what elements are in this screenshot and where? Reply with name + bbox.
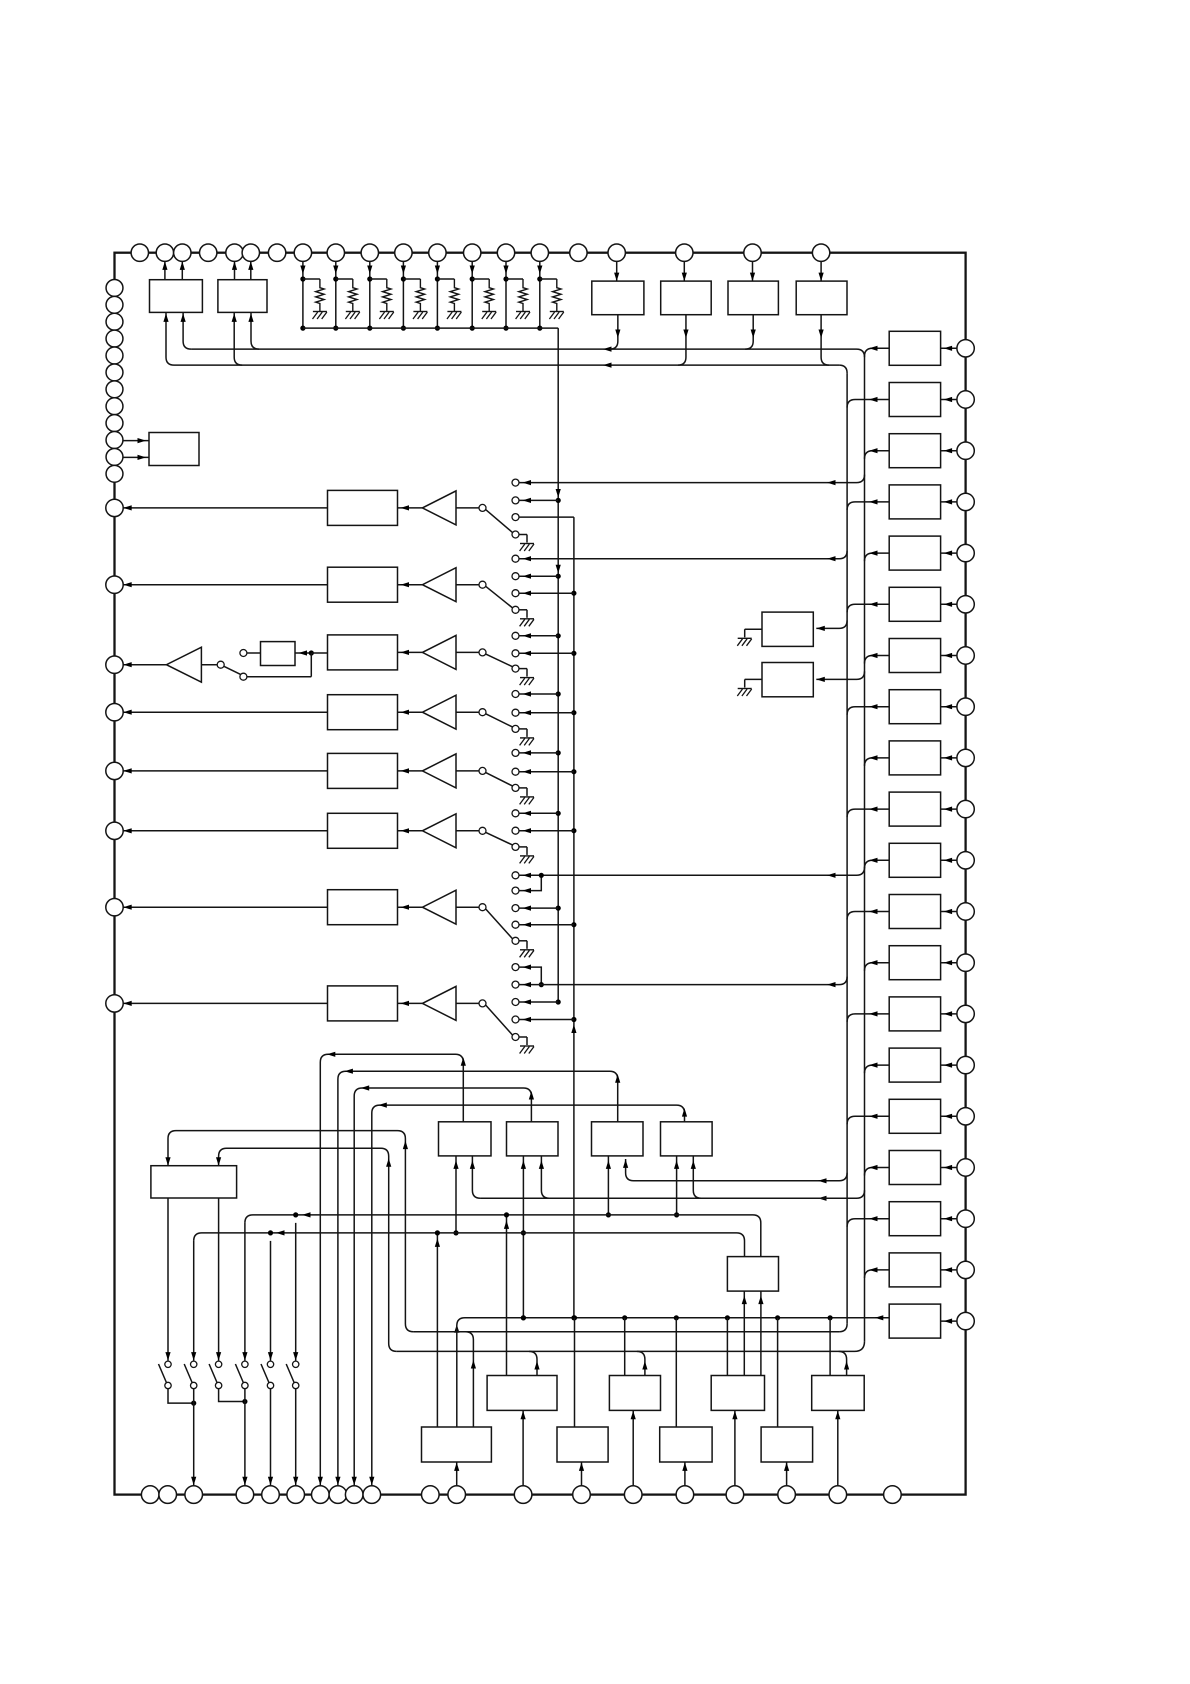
bottom pin pad 12 bbox=[448, 1486, 466, 1504]
junction on clock bus bbox=[622, 1315, 627, 1320]
wire right pad to R14 bbox=[941, 1013, 957, 1015]
wire A5 output to left pad bbox=[123, 770, 327, 772]
bottom pin pad 3 bbox=[185, 1486, 203, 1504]
resistor R2 bbox=[349, 279, 357, 312]
wire right pad to R13 bbox=[941, 962, 957, 964]
wire clock bus to B4 top bbox=[829, 1318, 831, 1376]
wire right pad to R15 bbox=[941, 1064, 957, 1066]
wire top pad to T3 bbox=[752, 261, 754, 281]
ground at SW6 bbox=[519, 846, 527, 848]
switch SW6 lever bbox=[486, 832, 513, 845]
wire SW6 contact2 to V2 bbox=[519, 830, 574, 832]
switch SWB6 lower contact bbox=[293, 1382, 299, 1388]
wire U4 input from node N3 bbox=[295, 652, 311, 654]
wire SW2 contact1 long from bus A bbox=[519, 551, 847, 559]
wire M1 right-bottom pin to wire1198 bbox=[472, 1156, 480, 1198]
switch SW4 throw contact 1 bbox=[512, 691, 519, 698]
switch SW0 throw contact upper bbox=[240, 650, 247, 657]
switch SW7 throw contact 4 bbox=[512, 921, 519, 928]
junction SW8 bracket bbox=[539, 982, 544, 987]
right pin pad 19 bbox=[957, 1261, 974, 1278]
switch SW3 throw contact 1 bbox=[512, 632, 519, 639]
wire T1 output down bbox=[610, 315, 618, 349]
switch SWB4 lower contact bbox=[242, 1382, 248, 1388]
wire right pad to R5 bbox=[941, 552, 957, 554]
switch SW2 throw contact 3 bbox=[512, 590, 519, 597]
right pin pad 15 bbox=[957, 1056, 974, 1073]
top pin pad 15 bbox=[531, 244, 548, 261]
wire A4 output to left pad bbox=[123, 711, 327, 713]
junction B1 riser on W_A bbox=[504, 1212, 509, 1217]
left pin pad OUT6 bbox=[106, 822, 123, 839]
wire W_B select bus bbox=[194, 1233, 745, 1257]
block R11 right column cell bbox=[889, 843, 940, 877]
left pin pad OUT5 bbox=[106, 762, 123, 779]
top pin pad 14 bbox=[497, 244, 514, 261]
resistor cell R4 feed wire bbox=[402, 261, 404, 328]
switch SWB5 lever bbox=[261, 1364, 269, 1383]
left pin pad stack 5 bbox=[106, 347, 123, 364]
junction on V2 bbox=[571, 922, 576, 927]
ground under R3 bbox=[380, 311, 394, 313]
left pin pad stack 6 bbox=[106, 364, 123, 381]
right pin pad 16 bbox=[957, 1108, 974, 1125]
block R12 right column cell bbox=[889, 895, 940, 929]
wire SWB2 to bottom pad bbox=[193, 1389, 195, 1486]
bottom pin pad 10 bbox=[363, 1486, 381, 1504]
wire SW5 contact1 to V1 bbox=[519, 752, 558, 754]
ground under R2 bbox=[346, 311, 360, 313]
ground at SW5 bbox=[519, 787, 527, 789]
wire right pad to R12 bbox=[941, 911, 957, 913]
junction on clock bus bbox=[674, 1315, 679, 1320]
wire B0 input bbox=[201, 664, 217, 666]
junction on V2 bbox=[571, 1017, 576, 1022]
ground at SW7 bbox=[519, 940, 527, 942]
wire right pad to R7 bbox=[941, 655, 957, 657]
block R8 right column cell bbox=[889, 690, 940, 724]
wire clock bus to C2 top bbox=[574, 1318, 576, 1427]
switch SW1 lever bbox=[486, 509, 513, 532]
block L1 left decoder bbox=[151, 1166, 237, 1198]
wire SW3 contact2 to V2 bbox=[519, 652, 574, 654]
junction R3 on bus bbox=[367, 326, 372, 331]
wire amp B3 input bbox=[456, 651, 479, 653]
wire top pad to T1 bbox=[616, 261, 618, 281]
switch SW0 lever bbox=[224, 666, 241, 674]
switch SWB2 lever bbox=[184, 1364, 192, 1383]
junction on clock bus bbox=[828, 1315, 833, 1320]
wire top pad to T2 bbox=[683, 261, 685, 281]
left pin pad OUT7 bbox=[106, 899, 123, 916]
wire U2 input pin from bus W1 bbox=[251, 313, 259, 349]
block M1 mid register bbox=[439, 1122, 492, 1156]
bottom pin pad 1 bbox=[141, 1486, 159, 1504]
block R4 right column cell bbox=[889, 485, 940, 519]
left pin pad stack 1 bbox=[106, 279, 123, 296]
top pin pad 9 bbox=[327, 244, 344, 261]
wire bus A bottom into W_b bbox=[839, 1324, 847, 1332]
wire resistor bus corner down to V1 bbox=[557, 328, 559, 1002]
wire R7 output to bus bbox=[865, 656, 890, 664]
wire T3 output down bbox=[745, 315, 753, 349]
top pin pad 16 bbox=[570, 244, 587, 261]
switch SW8 throw contact 2 bbox=[512, 981, 519, 988]
wire M2 top output loop to bottom pad bbox=[354, 1088, 531, 1485]
block B3 output DAC upper bbox=[711, 1376, 764, 1411]
top pin pad 5 bbox=[226, 244, 243, 261]
bottom pin pad 4 bbox=[236, 1486, 254, 1504]
bus A vertical bbox=[846, 373, 848, 1324]
wire loop from W_c riser to L1 input b bbox=[219, 1148, 397, 1351]
junction on V1 bbox=[556, 691, 561, 696]
switch SW7 pole contact bbox=[479, 904, 486, 911]
wire M2 left-bottom pin down to clock bus bbox=[522, 1156, 524, 1318]
wire SW7 contact2 bracket to contact1 wire bbox=[519, 875, 541, 890]
switch SWB1 upper contact bbox=[165, 1361, 171, 1367]
resistor cell R5 feed wire bbox=[436, 261, 438, 328]
ground at SW3 bbox=[519, 668, 527, 670]
switch SW1 throw contact 3 bbox=[512, 514, 519, 521]
block A4 amp-row filter bbox=[328, 695, 398, 730]
wire SW8 contact2 long from bus A bbox=[519, 977, 847, 985]
switch SWB3 lower contact bbox=[215, 1382, 221, 1388]
wire R1 output to bus bbox=[865, 348, 890, 356]
right pin pad 3 bbox=[957, 442, 974, 459]
switch SW7 throw contact 1 bbox=[512, 872, 519, 879]
top pin pad 10 bbox=[361, 244, 378, 261]
block B2 output DAC upper bbox=[609, 1376, 660, 1411]
block A2 amp-row filter bbox=[328, 567, 398, 602]
junction SWB3/SWB4 bbox=[242, 1399, 247, 1404]
wire M4 top output loop to bottom pad bbox=[372, 1105, 685, 1485]
block M2 mid register bbox=[507, 1122, 559, 1156]
right pin pad 18 bbox=[957, 1210, 974, 1227]
switch SWB6 lever bbox=[286, 1364, 294, 1383]
left pin pad stack 12 bbox=[106, 465, 123, 482]
switch SW8 throw contact 4 bbox=[512, 1016, 519, 1023]
wire bus W1 horizontal bbox=[191, 348, 856, 350]
wire R15 output to bus bbox=[865, 1065, 890, 1073]
wire L1 output to SWB3 bbox=[218, 1198, 220, 1361]
left pin pad stack 7 bbox=[106, 381, 123, 398]
junction on V2 bbox=[571, 769, 576, 774]
right pin pad 4 bbox=[957, 493, 974, 510]
wire T2 output down bbox=[678, 315, 686, 365]
op-amp buffer B7 bbox=[398, 906, 423, 908]
wire bottom pad to DAC block bbox=[581, 1462, 583, 1486]
block R13 right column cell bbox=[889, 946, 940, 980]
block U1 top-left latch bbox=[150, 280, 203, 313]
ground at SW2 bbox=[519, 609, 527, 611]
switch SW4 lever bbox=[486, 714, 513, 727]
wire right pad to R2 bbox=[941, 399, 957, 401]
wire bus W1 end curves into bus B bbox=[857, 349, 865, 357]
switch SW8 pole contact bbox=[479, 1000, 486, 1007]
wire right pad to R19 bbox=[941, 1269, 957, 1271]
wire R11 output to bus bbox=[865, 860, 890, 868]
wire U1 input pin from bus W2 bbox=[166, 313, 174, 365]
switch SW2 pole contact bbox=[479, 581, 486, 588]
junction R6 on bus bbox=[470, 326, 475, 331]
wire C1 riser to W_B bbox=[436, 1233, 438, 1427]
wire M4 right-bottom pin to wire1180 bbox=[693, 1156, 701, 1198]
op-amp buffer B0 (row3 output driver) bbox=[123, 664, 166, 666]
ground at SW8 bbox=[519, 1036, 527, 1038]
top pin pad 20 bbox=[812, 244, 829, 261]
right pin pad 20 bbox=[957, 1312, 974, 1329]
wire S1 bottom pin a to B3 bbox=[743, 1291, 745, 1375]
top pin pad 18 bbox=[676, 244, 693, 261]
bottom pin pad 14 bbox=[573, 1486, 591, 1504]
switch SW3 throw contact 2 bbox=[512, 650, 519, 657]
block R6 right column cell bbox=[889, 587, 940, 621]
wire right pad to R8 bbox=[941, 706, 957, 708]
junction on V2 bbox=[571, 591, 576, 596]
ground under R7 bbox=[516, 311, 530, 313]
wire bus A branch to mid wire 1180 bbox=[626, 1159, 848, 1181]
ground at G2 bbox=[745, 678, 762, 680]
node R5 branch bbox=[437, 278, 454, 280]
ground under R8 bbox=[550, 311, 564, 313]
bottom pin pad 7 bbox=[312, 1486, 330, 1504]
wire B-row riser into W_c bbox=[637, 1351, 645, 1375]
ground under R4 bbox=[413, 311, 427, 313]
wire right pad to R18 bbox=[941, 1218, 957, 1220]
wire clock bus to B2 top bbox=[624, 1318, 626, 1376]
wire R17 output to bus bbox=[865, 1168, 890, 1176]
block R17 right column cell bbox=[889, 1151, 940, 1185]
wire pad to U3 input a bbox=[123, 440, 149, 442]
left pin pad stack 2 bbox=[106, 296, 123, 313]
wire 1198 connects M pins to bus B bbox=[480, 1197, 856, 1199]
junction R1 on bus bbox=[300, 326, 305, 331]
block C1 output DAC lower bbox=[422, 1427, 492, 1462]
switch SW2 throw contact 1 bbox=[512, 555, 519, 562]
wire amp B2 input bbox=[456, 584, 479, 586]
switch SW5 throw contact 2 bbox=[512, 768, 519, 775]
wire bottom pad to DAC block bbox=[786, 1462, 788, 1486]
wire SW8 contact4 to V2 bbox=[519, 1019, 574, 1021]
wire SW7 contact4 to V2 bbox=[519, 924, 574, 926]
wire bottom pad to DAC block bbox=[522, 1410, 524, 1485]
wire bottom pad to DAC block bbox=[632, 1410, 634, 1485]
wire bottom pad to DAC block bbox=[734, 1410, 736, 1485]
node R6 branch bbox=[472, 278, 489, 280]
block T1 top input stage bbox=[592, 281, 644, 315]
left pin pad stack 3 bbox=[106, 313, 123, 330]
bottom pin pad 20 bbox=[884, 1486, 902, 1504]
wire bus B bottom into W_c bbox=[855, 1341, 865, 1351]
bottom pin pad 8 bbox=[329, 1486, 347, 1504]
switch SW5 pole contact bbox=[479, 767, 486, 774]
wire W_A select bus bbox=[245, 1215, 761, 1257]
op-amp buffer B8 bbox=[398, 1002, 423, 1004]
wire right pad to R17 bbox=[941, 1167, 957, 1169]
right pin pad 11 bbox=[957, 852, 974, 869]
wire amp B1 input bbox=[456, 507, 479, 509]
wire SW5 contact2 to V2 bbox=[519, 771, 574, 773]
right pin pad 5 bbox=[957, 544, 974, 561]
wire R14 output to bus bbox=[847, 1014, 889, 1022]
left pin pad OUT2 bbox=[106, 576, 123, 593]
resistor R5 bbox=[450, 279, 458, 312]
bottom pin pad 5 bbox=[262, 1486, 280, 1504]
resistor cell R7 feed wire bbox=[505, 261, 507, 328]
wire SWB6 to bottom pad bbox=[295, 1389, 297, 1486]
wire R5 output to bus bbox=[865, 553, 890, 561]
left pin pad OUT4 bbox=[106, 704, 123, 721]
wire bottom pad to DAC block bbox=[837, 1410, 839, 1485]
node R2 branch bbox=[336, 278, 353, 280]
left pin pad stack 4 bbox=[106, 330, 123, 347]
wire L1 output to SWB1 bbox=[167, 1198, 169, 1361]
wire SW3 contact1 to V1 bbox=[519, 635, 558, 637]
switch SW2 throw contact 2 bbox=[512, 573, 519, 580]
left pin pad OUT8 bbox=[106, 995, 123, 1012]
junction W_B to sw5 bbox=[268, 1230, 273, 1235]
op-amp buffer B3 bbox=[398, 651, 423, 653]
wire clock bus to B3 top bbox=[726, 1318, 728, 1376]
switch SW5 lever bbox=[486, 772, 513, 786]
switch SWB5 upper contact bbox=[267, 1361, 273, 1367]
switch SWB1 lever bbox=[159, 1364, 167, 1383]
right pin pad 17 bbox=[957, 1159, 974, 1176]
resistor cell R6 feed wire bbox=[471, 261, 473, 328]
chip outline border bbox=[115, 253, 966, 1495]
junction SW7 bracket bbox=[539, 873, 544, 878]
junction C1 riser on W_B bbox=[435, 1230, 440, 1235]
wire U1 pin to top pad bbox=[164, 261, 166, 279]
wire right pad to R4 bbox=[941, 501, 957, 503]
block R19 right column cell bbox=[889, 1253, 940, 1287]
block R18 right column cell bbox=[889, 1202, 940, 1236]
node R3 branch bbox=[370, 278, 387, 280]
block A7 amp-row filter bbox=[328, 890, 398, 925]
block A3 amp-row filter bbox=[328, 635, 398, 670]
vertical V2 bbox=[573, 517, 575, 1318]
wire U1 input pin from bus W1 bbox=[183, 313, 191, 349]
top pin pad 6 bbox=[242, 244, 259, 261]
top pin pad 2 bbox=[156, 244, 173, 261]
junction M4 pin on W_A bbox=[674, 1212, 679, 1217]
switch SW1 lever-end contact bbox=[512, 531, 519, 538]
block U3 small left block bbox=[149, 433, 199, 466]
junction on V2 bbox=[571, 651, 576, 656]
ground at SW4 bbox=[519, 728, 527, 730]
wire M2 right-bottom pin to wire1198 bbox=[541, 1156, 549, 1198]
right pin pad 10 bbox=[957, 800, 974, 817]
bottom pin pad 19 bbox=[829, 1486, 847, 1504]
wire clock bus to C3 top bbox=[675, 1318, 677, 1427]
wire W_c bus bbox=[397, 1350, 855, 1352]
wire amp B6 input bbox=[456, 830, 479, 832]
op-amp buffer B1 bbox=[398, 507, 423, 509]
top pin pad 4 bbox=[200, 244, 217, 261]
wire bottom pad to DAC block bbox=[684, 1462, 686, 1486]
top pin pad 11 bbox=[395, 244, 412, 261]
wire A8 output to left pad bbox=[123, 1002, 327, 1004]
wire W_B to SWB5 bbox=[270, 1241, 272, 1361]
block R14 right column cell bbox=[889, 997, 940, 1031]
resistor cell R1 feed wire bbox=[302, 261, 304, 328]
switch SW5 lever-end contact bbox=[512, 784, 519, 791]
junction on clock bus bbox=[725, 1315, 730, 1320]
wire B1 riser to W_A bbox=[506, 1215, 508, 1376]
bottom pin pad 11 bbox=[422, 1486, 440, 1504]
block U4 row3 processor bbox=[261, 642, 296, 666]
wire right pad to R1 bbox=[941, 347, 957, 349]
junction on clock bus bbox=[572, 1315, 577, 1320]
wire SWB1 to SWB2 column bbox=[168, 1389, 194, 1403]
bottom pin pad 18 bbox=[778, 1486, 796, 1504]
wire SW6 contact1 to V1 bbox=[519, 812, 558, 814]
wire SW7 contact3 to V1 bbox=[519, 907, 558, 909]
wire R19 output to bus bbox=[865, 1270, 890, 1278]
bottom pin pad 17 bbox=[726, 1486, 744, 1504]
junction M2 pin on W_B bbox=[521, 1230, 526, 1235]
block R3 right column cell bbox=[889, 434, 940, 468]
switch SW6 lever-end contact bbox=[512, 843, 519, 850]
junction SWB1/SWB2 bbox=[191, 1401, 196, 1406]
top pin pad 1 bbox=[131, 244, 148, 261]
switch SW3 pole contact bbox=[479, 649, 486, 656]
resistor R6 bbox=[485, 279, 493, 312]
wire SW2 contact2 to V1 bbox=[519, 575, 558, 577]
switch SW4 throw contact 2 bbox=[512, 709, 519, 716]
op-amp buffer B5 bbox=[398, 770, 423, 772]
bottom pin pad 16 bbox=[676, 1486, 694, 1504]
right pin pad 7 bbox=[957, 647, 974, 664]
resistor R3 bbox=[383, 279, 391, 312]
block T4 top input stage bbox=[796, 281, 847, 315]
bus B vertical bbox=[864, 356, 866, 1341]
top pin pad 17 bbox=[608, 244, 625, 261]
junction on V2 bbox=[571, 828, 576, 833]
block G2 reference bbox=[762, 663, 813, 697]
node R8 branch bbox=[540, 278, 557, 280]
block R20 right column cell bbox=[889, 1304, 940, 1338]
bottom pin pad 2 bbox=[159, 1486, 177, 1504]
wire U2 pin to top pad bbox=[234, 261, 236, 279]
wire node N3 to lower contact bbox=[310, 653, 312, 677]
left pin pad OUT3 bbox=[106, 656, 123, 673]
wire R4 output to bus bbox=[847, 502, 889, 510]
block B4 output DAC upper bbox=[812, 1376, 865, 1411]
junction on clock bus bbox=[775, 1315, 780, 1320]
block R5 right column cell bbox=[889, 536, 940, 570]
junction M3 pin on W_A bbox=[606, 1212, 611, 1217]
left pin pad stack 10 bbox=[106, 432, 123, 449]
left pin pad OUT1 bbox=[106, 499, 123, 516]
wire SW4 contact1 to V1 bbox=[519, 693, 558, 695]
junction on V1 bbox=[556, 633, 561, 638]
wire pad to U3 input b bbox=[123, 456, 149, 458]
right pin pad 2 bbox=[957, 391, 974, 408]
junction R7 on bus bbox=[503, 326, 508, 331]
resistor cell R3 feed wire bbox=[369, 261, 371, 328]
switch SWB4 lever bbox=[235, 1364, 243, 1383]
block R1 right column cell bbox=[889, 331, 940, 365]
wire right pad to R3 bbox=[941, 450, 957, 452]
wire r1c3 to V2 corner bbox=[519, 516, 574, 518]
block A6 amp-row filter bbox=[328, 813, 398, 848]
wire clock bus stem to C1 bbox=[456, 1326, 458, 1427]
wire S1 bottom pin b to B3 bbox=[760, 1291, 762, 1375]
switch SWB2 upper contact bbox=[191, 1361, 197, 1367]
wire W_A to SWB4 bbox=[244, 1223, 246, 1361]
wire right pad to R6 bbox=[941, 603, 957, 605]
